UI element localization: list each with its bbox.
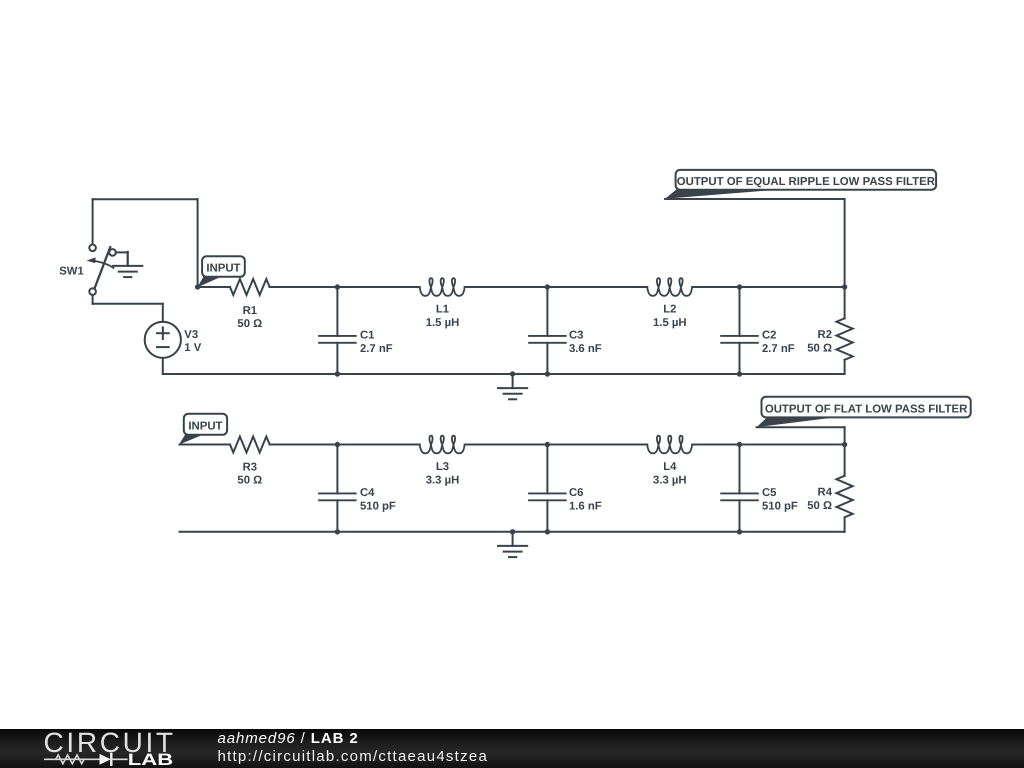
svg-text:1.5 µH: 1.5 µH: [426, 317, 460, 329]
junction: [335, 284, 340, 289]
svg-text:510 pF: 510 pF: [360, 501, 396, 513]
inductor L3: [420, 436, 465, 454]
inductor L1: [420, 278, 465, 296]
annotation OUTPUT OF FLAT LOW PASS FILTER: [757, 416, 830, 427]
resistor R4: [844, 445, 846, 476]
svg-text:1.6 nF: 1.6 nF: [569, 501, 602, 513]
inductor L4: [647, 436, 692, 454]
resistor R3: [230, 437, 270, 453]
wire: [757, 426, 845, 428]
svg-text:L1: L1: [436, 304, 449, 316]
wire: [665, 198, 845, 200]
junction: [510, 529, 515, 534]
svg-text:L2: L2: [663, 304, 676, 316]
svg-text:C5: C5: [762, 487, 776, 499]
junction: [335, 371, 340, 376]
svg-text:R4: R4: [818, 487, 833, 499]
junction: [842, 284, 847, 289]
svg-text:INPUT: INPUT: [206, 263, 240, 275]
capacitor C5: [739, 445, 741, 494]
url http://circuitlab.com/cttaeau4stzea: [218, 748, 489, 765]
wire: [92, 295, 94, 304]
svg-text:C4: C4: [360, 487, 375, 499]
wire: [465, 286, 648, 288]
switch SW1: [89, 245, 96, 252]
wire: [162, 358, 164, 374]
ground: [512, 532, 514, 546]
resistor R2: [844, 287, 846, 318]
svg-text:C3: C3: [569, 329, 583, 341]
junction: [737, 442, 742, 447]
wire: [465, 444, 648, 446]
svg-text:L4: L4: [663, 461, 677, 473]
junction: [737, 529, 742, 534]
capacitor C1: [336, 287, 338, 336]
svg-text:50 Ω: 50 Ω: [237, 475, 262, 487]
svg-text:1.5 µH: 1.5 µH: [653, 317, 687, 329]
junction: [737, 371, 742, 376]
junction: [510, 371, 515, 376]
svg-text:OUTPUT OF FLAT LOW PASS FILTER: OUTPUT OF FLAT LOW PASS FILTER: [765, 403, 967, 415]
annotation INPUT: [179, 433, 201, 444]
svg-text:R2: R2: [818, 329, 832, 341]
footer bar: [0, 729, 1024, 768]
title aahmed96 / LAB 2: [218, 730, 359, 747]
svg-text:3.3 µH: 3.3 µH: [426, 475, 460, 487]
svg-text:C6: C6: [569, 487, 583, 499]
wire: [93, 198, 198, 200]
ground: [127, 252, 129, 266]
svg-text:INPUT: INPUT: [188, 421, 222, 433]
svg-text:50 Ω: 50 Ω: [807, 343, 832, 355]
junction: [545, 371, 550, 376]
svg-text:C1: C1: [360, 329, 374, 341]
capacitor C6: [546, 445, 548, 494]
svg-text:LAB: LAB: [128, 751, 173, 768]
svg-text:V3: V3: [184, 329, 198, 341]
wire: [163, 373, 845, 375]
CircuitLab logo: [44, 727, 174, 768]
svg-text:R3: R3: [243, 462, 257, 474]
svg-text:C2: C2: [762, 329, 776, 341]
node input junction: [195, 284, 200, 289]
annotation INPUT: [197, 275, 219, 287]
junction: [335, 442, 340, 447]
wire: [116, 251, 128, 253]
wire: [180, 531, 845, 533]
junction: [545, 529, 550, 534]
junction: [545, 442, 550, 447]
svg-text:2.7 nF: 2.7 nF: [762, 343, 795, 355]
wire: [692, 444, 844, 446]
svg-text:R1: R1: [243, 305, 257, 317]
annotation OUTPUT OF EQUAL RIPPLE LOW PASS FILTER: [665, 188, 771, 199]
svg-text:1 V: 1 V: [184, 342, 201, 354]
wire: [198, 286, 230, 288]
svg-text:50 Ω: 50 Ω: [237, 318, 262, 330]
capacitor C4: [336, 445, 338, 494]
resistor R1: [230, 279, 270, 295]
svg-text:3.3 µH: 3.3 µH: [653, 475, 687, 487]
junction: [842, 442, 847, 447]
svg-text:510 pF: 510 pF: [762, 501, 798, 513]
svg-text:50 Ω: 50 Ω: [807, 500, 832, 512]
ground: [512, 374, 514, 388]
wire: [180, 444, 231, 446]
junction: [545, 284, 550, 289]
junction: [335, 529, 340, 534]
wire: [270, 286, 420, 288]
svg-text:SW1: SW1: [59, 265, 83, 277]
svg-text:L3: L3: [436, 461, 449, 473]
capacitor C3: [546, 287, 548, 336]
svg-text:OUTPUT OF EQUAL RIPPLE LOW PAS: OUTPUT OF EQUAL RIPPLE LOW PASS FILTER: [677, 176, 935, 188]
voltage source V3: [145, 322, 181, 358]
svg-text:3.6 nF: 3.6 nF: [569, 343, 602, 355]
svg-text:2.7 nF: 2.7 nF: [360, 343, 393, 355]
wire: [692, 286, 844, 288]
junction: [737, 284, 742, 289]
inductor L2: [647, 278, 692, 296]
capacitor C2: [739, 287, 741, 336]
wire: [270, 444, 420, 446]
wire: [197, 199, 199, 287]
